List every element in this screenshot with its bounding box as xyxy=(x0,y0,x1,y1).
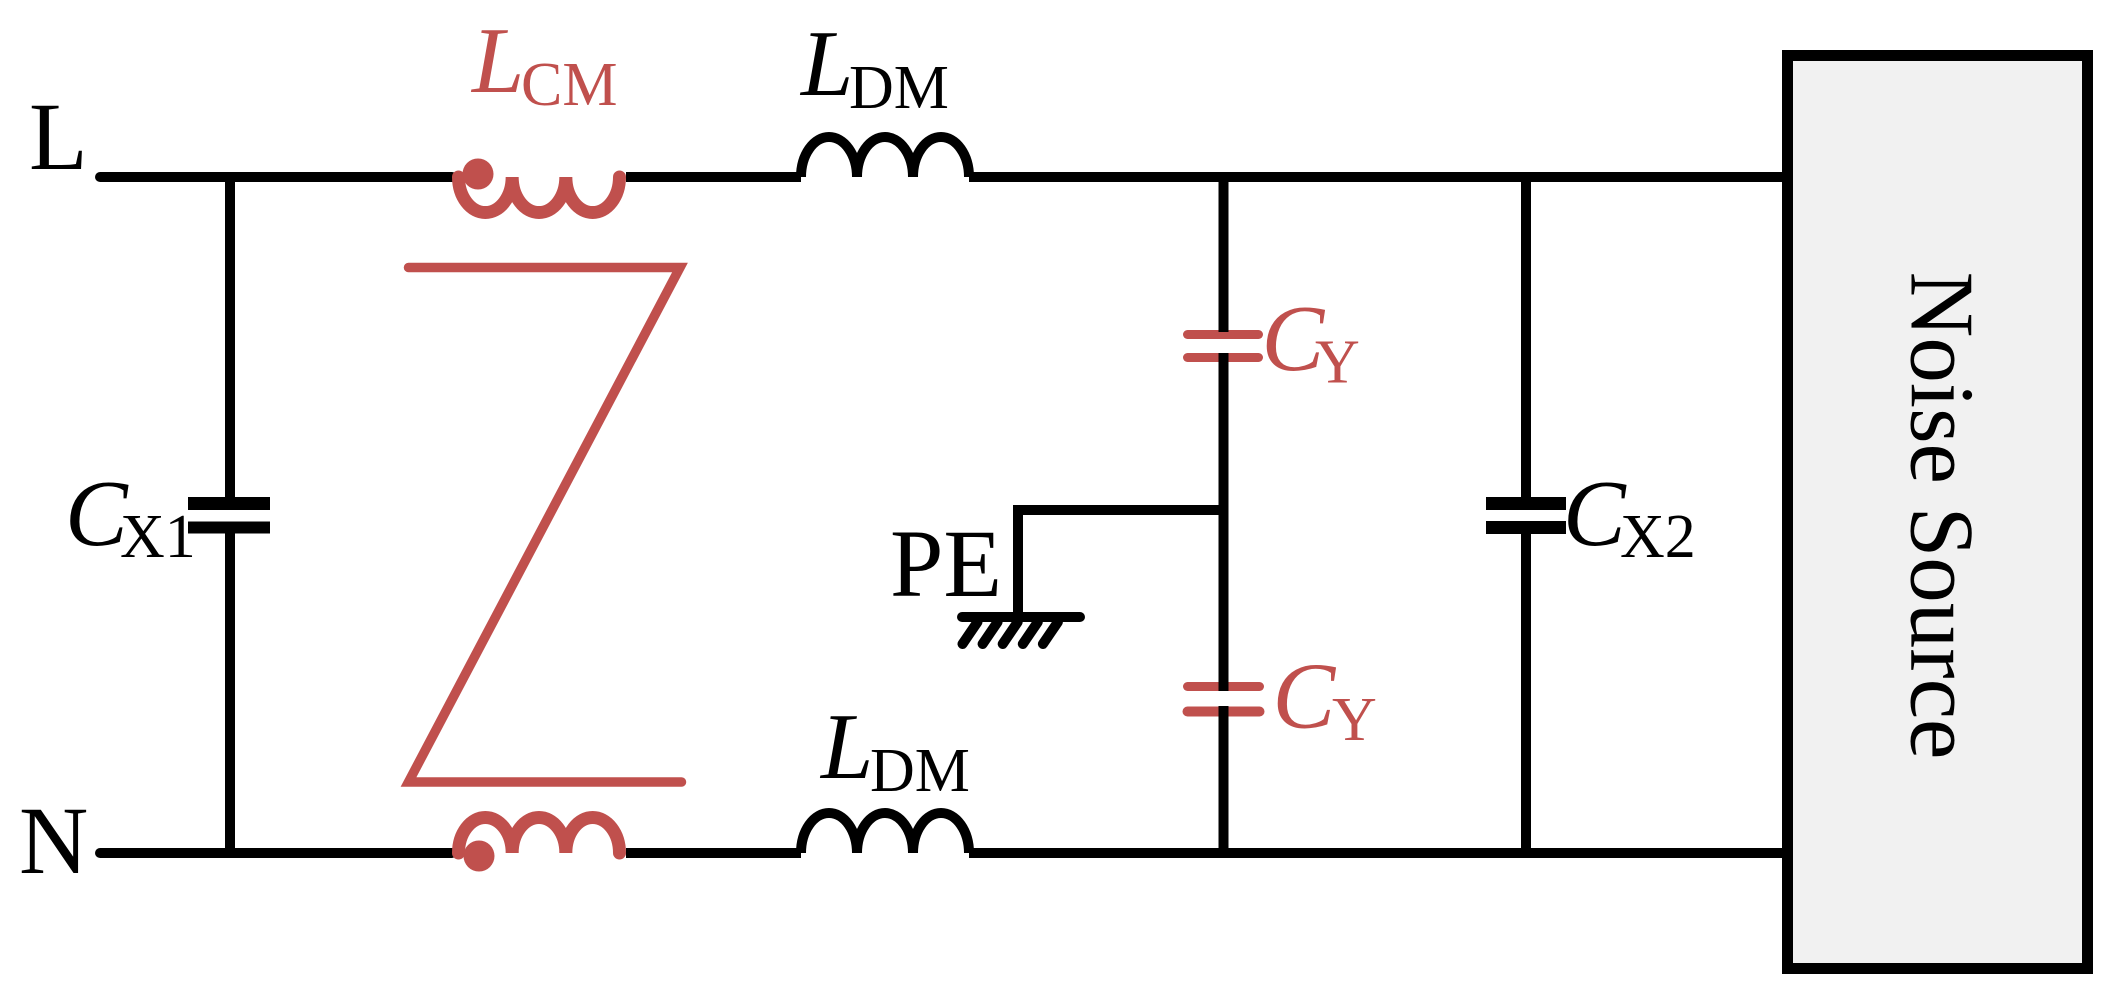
CY branch wire lower segment xyxy=(1219,706,1229,853)
polarity dot LCM bottom winding xyxy=(464,841,495,872)
capacitor CX1 top plate xyxy=(188,497,270,510)
svg-text:X2: X2 xyxy=(1620,503,1696,571)
ground hatch 2 xyxy=(983,622,998,644)
LCM core coupling Z symbol xyxy=(409,268,682,783)
PE vertical stub xyxy=(1013,505,1023,618)
capacitor CY2 top plate (red) xyxy=(1188,682,1260,691)
ground hatch 1 xyxy=(963,622,978,644)
inductor LCM bottom winding (red) xyxy=(459,817,620,853)
svg-text:L: L xyxy=(29,83,88,190)
capacitor CX1 top lead xyxy=(225,177,235,497)
svg-text:C: C xyxy=(1273,645,1337,749)
capacitor CX2 bottom lead xyxy=(1521,534,1531,853)
svg-text:DM: DM xyxy=(870,737,970,805)
capacitor CX2 top plate xyxy=(1486,497,1566,510)
wire N between LCM and LDM xyxy=(626,848,801,858)
svg-text:CM: CM xyxy=(521,51,617,119)
CY branch wire upper segment xyxy=(1219,177,1229,332)
capacitor CY2 bottom plate (red) xyxy=(1188,707,1260,717)
svg-text:Noise Source: Noise Source xyxy=(1892,272,1993,760)
capacitor CY1 bottom plate (red) xyxy=(1188,353,1259,362)
ground hatch 4 xyxy=(1023,622,1038,644)
PE horizontal wire xyxy=(1018,505,1223,515)
svg-text:L: L xyxy=(470,9,524,113)
capacitor CX2 top lead xyxy=(1521,177,1531,497)
polarity dot LCM top winding xyxy=(463,159,494,190)
svg-text:Y: Y xyxy=(1332,686,1377,754)
wire L between LCM and LDM xyxy=(626,172,801,182)
wire N right segment to noise source xyxy=(969,848,1790,858)
svg-text:X1: X1 xyxy=(120,503,196,571)
svg-text:C: C xyxy=(1563,462,1627,566)
svg-text:L: L xyxy=(819,695,873,799)
capacitor CX1 bottom lead xyxy=(225,533,235,853)
wire L top-left segment xyxy=(100,172,452,182)
CY branch wire middle segment xyxy=(1219,353,1229,691)
capacitor CX1 bottom plate xyxy=(188,522,270,534)
svg-text:Y: Y xyxy=(1315,329,1360,397)
noise source box xyxy=(1788,56,2088,969)
capacitor CX2 bottom plate xyxy=(1486,521,1566,534)
inductor LCM top winding (red) xyxy=(459,177,620,213)
ground bar xyxy=(962,612,1080,622)
ground hatch 5 xyxy=(1043,622,1058,644)
svg-text:DM: DM xyxy=(849,54,949,122)
capacitor CY1 top plate (red) xyxy=(1188,330,1259,339)
svg-text:PE: PE xyxy=(890,510,1002,617)
wire L right segment to noise source xyxy=(969,172,1790,182)
inductor LDM bottom (black) xyxy=(801,813,969,853)
svg-text:L: L xyxy=(799,12,853,116)
wire N bottom-left segment xyxy=(100,848,452,858)
svg-text:N: N xyxy=(19,787,88,894)
inductor LDM top (black) xyxy=(801,137,969,177)
ground hatch 3 xyxy=(1003,622,1018,644)
